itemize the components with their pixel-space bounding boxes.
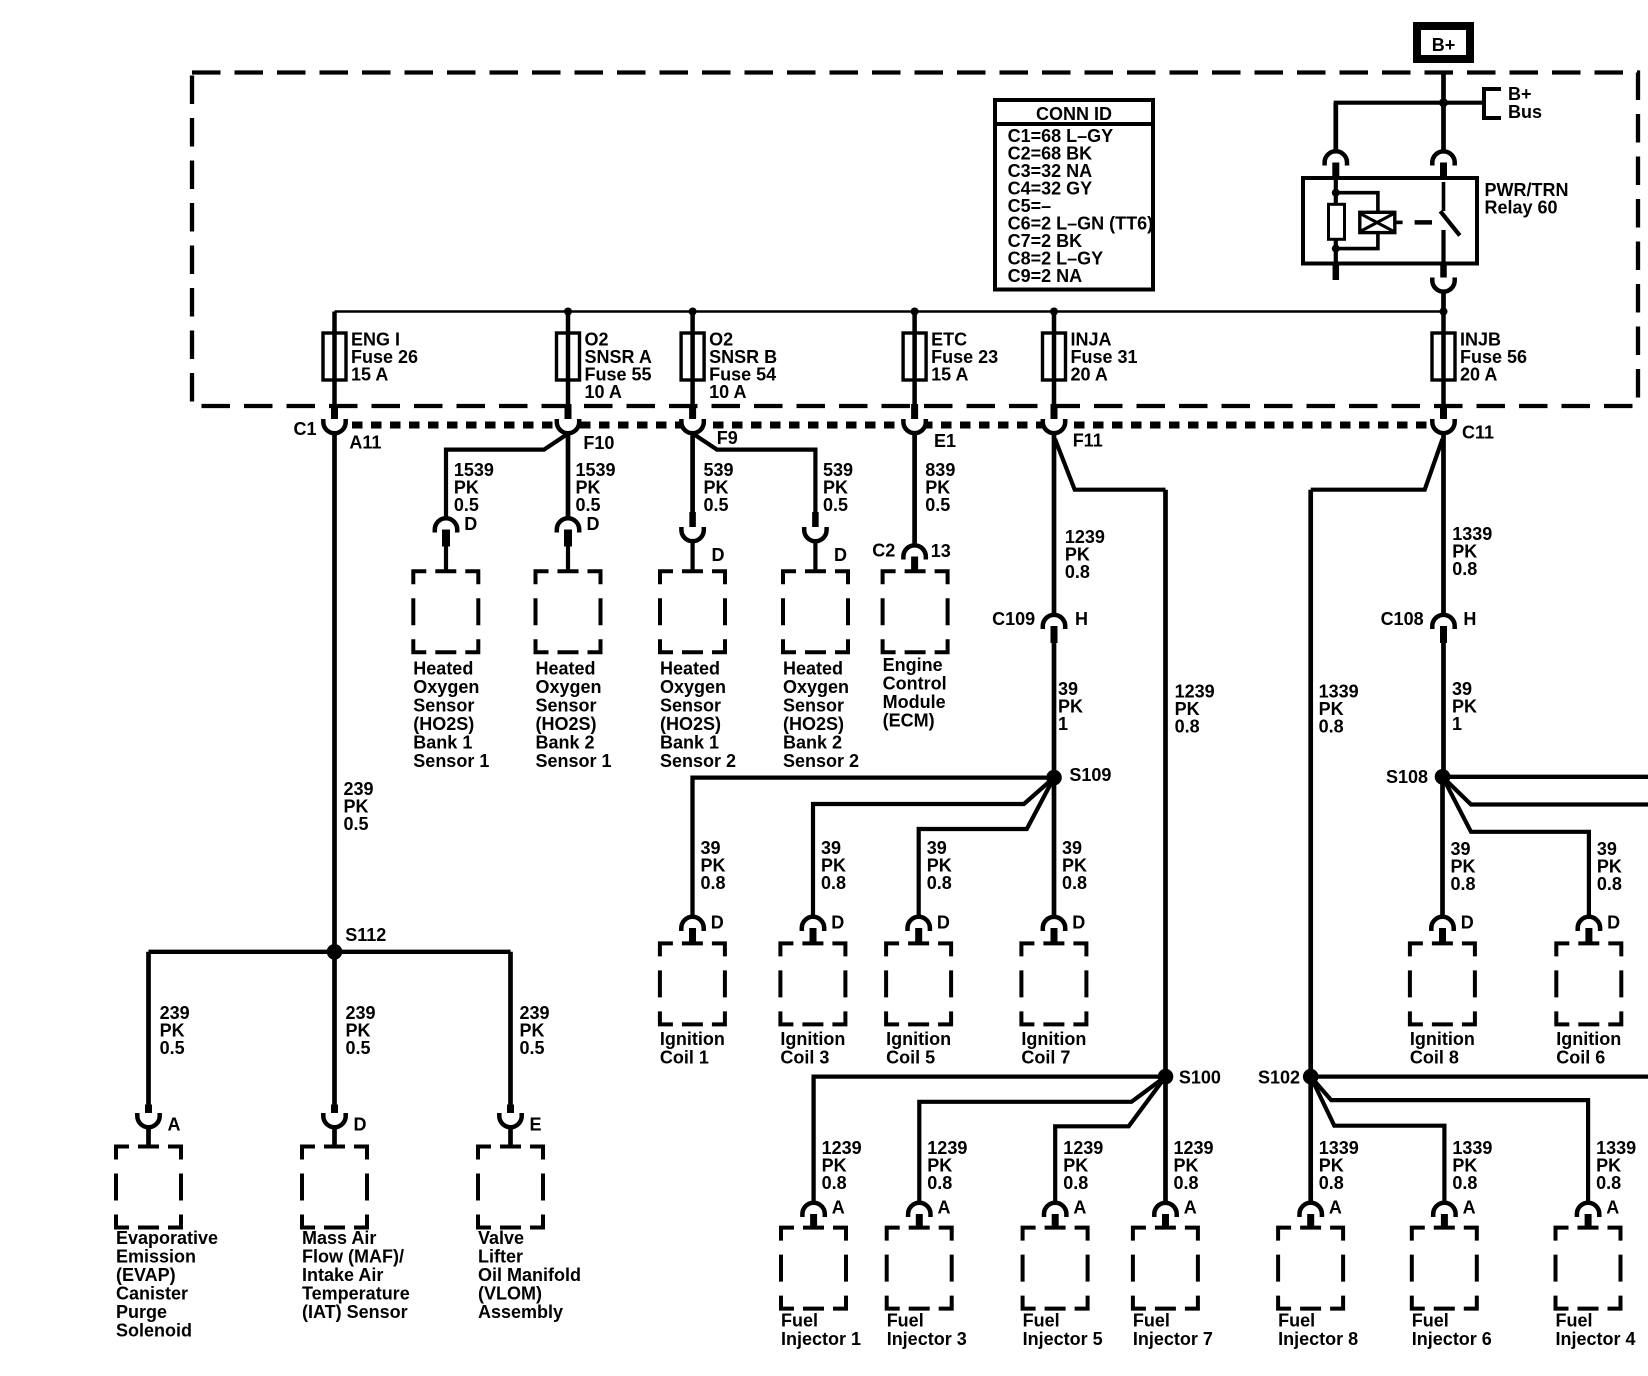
svg-text:Ignition: Ignition [1410, 1029, 1475, 1049]
svg-text:C108: C108 [1381, 609, 1424, 629]
wire label 1539 PK 0.5 (left) [454, 460, 494, 515]
wire S112 branch down x=510.5 [508, 952, 513, 1105]
wire S100 to fuel injector 1 [814, 1077, 1166, 1202]
svg-text:Fuel: Fuel [1412, 1311, 1449, 1331]
svg-text:0.5: 0.5 [454, 495, 479, 515]
svg-text:Oxygen: Oxygen [660, 677, 726, 697]
svg-text:(VLOM): (VLOM) [478, 1284, 542, 1304]
svg-text:Injector 3: Injector 3 [887, 1329, 967, 1349]
svg-text:H: H [1463, 609, 1476, 629]
connector E [499, 1105, 541, 1135]
wire label 1239 PK 0.8 (Injector 7) [1174, 1138, 1214, 1193]
svg-text:Ignition: Ignition [780, 1029, 845, 1049]
svg-text:D: D [831, 913, 844, 933]
svg-text:C2: C2 [872, 541, 895, 561]
svg-text:S108: S108 [1386, 767, 1428, 787]
svg-text:Oxygen: Oxygen [536, 677, 602, 697]
connector F11 [1043, 419, 1103, 451]
node S108 [1386, 767, 1450, 787]
svg-text:B+: B+ [1432, 35, 1456, 55]
svg-text:D: D [1607, 913, 1620, 933]
svg-text:Ignition: Ignition [1556, 1029, 1621, 1049]
connector D (Coil 7) [1043, 913, 1085, 944]
fuel injector box Injector 3 [887, 1228, 967, 1349]
svg-text:0.5: 0.5 [704, 495, 729, 515]
ignition coil box Coil 7 [1021, 943, 1086, 1067]
svg-text:Solenoid: Solenoid [116, 1321, 192, 1341]
wire label 239 PK 0.5 [344, 779, 374, 834]
svg-text:Module: Module [883, 692, 946, 712]
node relay coil bottom [1332, 245, 1340, 253]
connector A (Injector 7) [1154, 1198, 1196, 1228]
svg-text:Injector 1: Injector 1 [781, 1329, 861, 1349]
wire E1 down to ECM [912, 433, 917, 544]
wire F9 split diagonal to right sensor [695, 435, 815, 512]
connector F9 [681, 419, 737, 448]
HO2S Bank2 Sensor2 box [783, 571, 859, 771]
harness dashed box [192, 73, 1638, 407]
svg-text:Fuel: Fuel [1556, 1311, 1593, 1331]
HO2S Bank1 Sensor2 box [660, 571, 736, 771]
svg-text:(HO2S): (HO2S) [783, 714, 844, 734]
wire connector to component [332, 1127, 337, 1147]
svg-text:Coil 8: Coil 8 [1410, 1048, 1459, 1068]
wire relay output to bus [1441, 291, 1446, 312]
svg-text:0.8: 0.8 [1065, 562, 1090, 582]
ECM box [883, 571, 948, 730]
svg-text:F11: F11 [1073, 431, 1103, 451]
svg-text:0.8: 0.8 [1063, 1173, 1088, 1193]
svg-text:Sensor: Sensor [783, 696, 844, 716]
fuel injector box Injector 4 [1556, 1228, 1636, 1349]
svg-text:S112: S112 [345, 925, 386, 945]
wire label 539 PK 0.5 [704, 460, 734, 515]
svg-text:E1: E1 [934, 431, 956, 451]
ignition coil box Coil 8 [1410, 943, 1475, 1067]
svg-text:0.8: 0.8 [1597, 874, 1622, 894]
svg-text:(HO2S): (HO2S) [660, 714, 721, 734]
connector A (Injector 3) [908, 1198, 950, 1228]
svg-text:F10: F10 [583, 433, 614, 453]
svg-text:A: A [938, 1198, 951, 1218]
connector C11 [1432, 419, 1494, 443]
svg-text:D: D [937, 913, 950, 933]
wire label 539 PK 0.5 (right) [823, 460, 853, 515]
svg-text:10 A: 10 A [709, 382, 746, 402]
fuel injector box Injector 8 [1278, 1228, 1358, 1349]
HO2S Bank1 Sensor1 box [413, 571, 489, 771]
svg-text:Canister: Canister [116, 1284, 188, 1304]
wire S100 to fuel injector 5 [1055, 1077, 1165, 1202]
svg-text:0.8: 0.8 [1174, 1173, 1199, 1193]
svg-text:Lifter: Lifter [478, 1247, 523, 1267]
svg-text:15 A: 15 A [931, 365, 968, 385]
node S112 [327, 925, 387, 960]
svg-text:0.5: 0.5 [576, 495, 601, 515]
relay input connector (switch side) [1432, 151, 1454, 178]
wire label 1239 PK 0.8 (Injector 5) [1063, 1138, 1103, 1193]
wire F11 down to C109 [1052, 433, 1057, 614]
svg-text:Injector 7: Injector 7 [1133, 1329, 1213, 1349]
wire S109 to ignition coil 7 [1052, 778, 1057, 916]
wire label 1339 PK 0.8 [1452, 524, 1492, 579]
relay coil ground stub [1333, 264, 1340, 281]
relay coil branch wire [1334, 178, 1338, 204]
svg-text:0.5: 0.5 [925, 495, 950, 515]
svg-text:A: A [1329, 1198, 1342, 1218]
wire S102 to fuel injector 6 [1311, 1077, 1445, 1202]
svg-text:Oil Manifold: Oil Manifold [478, 1265, 581, 1285]
svg-text:A: A [1073, 1198, 1086, 1218]
fuse O2 SNSR A [557, 308, 652, 423]
svg-text:D: D [354, 1115, 367, 1135]
wire S102 to fuel injector 8 [1308, 1077, 1313, 1202]
svg-text:Oxygen: Oxygen [413, 677, 479, 697]
svg-text:(ECM): (ECM) [883, 711, 935, 731]
HO2S Bank2 Sensor1 box [536, 571, 612, 771]
connector A (Injector 5) [1044, 1198, 1086, 1228]
wire label 1239 PK 0.8 (Injector 3) [927, 1138, 967, 1193]
svg-text:Coil 6: Coil 6 [1556, 1048, 1605, 1068]
connector D (HO2S B1S2) [681, 512, 724, 565]
fuel injector box Injector 7 [1133, 1228, 1213, 1349]
svg-text:1: 1 [1452, 714, 1462, 734]
svg-text:1: 1 [1058, 714, 1068, 734]
connector D (HO2S B2S2) [804, 512, 847, 565]
connector A (Injector 1) [802, 1198, 844, 1228]
wire to relay coil-side input [1333, 103, 1338, 151]
relay input connector (coil side) [1325, 151, 1347, 178]
wire S112 branch horizontal [149, 950, 511, 954]
node relay coil top [1332, 189, 1340, 197]
wire S102 to right edge [1311, 1074, 1648, 1078]
svg-text:Heated: Heated [783, 659, 843, 679]
connector E1 [903, 419, 956, 451]
fuse ENG I [323, 312, 418, 423]
connector D (Coil 8) [1431, 913, 1473, 944]
svg-text:S100: S100 [1179, 1068, 1221, 1088]
svg-text:A: A [832, 1198, 845, 1218]
wire S100 to fuel injector 7 [1163, 1077, 1168, 1202]
wire C11 split diagonal to injector feed [1311, 439, 1443, 490]
svg-text:20 A: 20 A [1071, 365, 1108, 385]
wire label 1339 PK 0.8 (Injector 6) [1452, 1138, 1492, 1193]
fuse ETC [903, 308, 998, 423]
fuse O2 SNSR B [681, 308, 777, 423]
relay coil winding symbol [1360, 212, 1395, 232]
wire label 239 PK 0.5 [346, 1003, 376, 1058]
wire B+ down to junction [1441, 73, 1446, 104]
VLOM assembly box [478, 1147, 581, 1323]
node S100 [1158, 1068, 1221, 1088]
svg-text:0.5: 0.5 [344, 814, 369, 834]
svg-text:Sensor: Sensor [413, 696, 474, 716]
svg-text:H: H [1075, 609, 1088, 629]
svg-text:D: D [464, 514, 477, 534]
relay switch output wire [1441, 230, 1445, 264]
svg-text:Bank 2: Bank 2 [536, 733, 595, 753]
fuse INJA [1043, 308, 1138, 423]
svg-text:Sensor: Sensor [660, 696, 721, 716]
svg-text:B+: B+ [1508, 84, 1532, 104]
connector A (Injector 8) [1300, 1198, 1342, 1228]
svg-text:CONN ID: CONN ID [1036, 104, 1112, 124]
svg-text:A: A [1463, 1198, 1476, 1218]
svg-text:Ignition: Ignition [1021, 1029, 1086, 1049]
svg-text:0.5: 0.5 [160, 1038, 185, 1058]
connector D (Coil 3) [802, 913, 844, 944]
wire S108 to ignition coil 6 [1443, 777, 1589, 916]
svg-text:Injector 8: Injector 8 [1278, 1329, 1358, 1349]
svg-text:0.5: 0.5 [346, 1038, 371, 1058]
svg-text:(IAT) Sensor: (IAT) Sensor [302, 1302, 408, 1322]
MAF/IAT sensor box [302, 1147, 410, 1323]
connector C108 pin H [1381, 609, 1477, 643]
relay armature link (dashed) [1395, 221, 1403, 225]
svg-text:D: D [711, 913, 724, 933]
svg-text:Evaporative: Evaporative [116, 1228, 218, 1248]
fuel injector box Injector 5 [1023, 1228, 1103, 1349]
wire label 1239 PK 0.8 [1175, 682, 1215, 737]
wire to HO2S B1S1 box [444, 547, 448, 572]
svg-text:10 A: 10 A [585, 382, 622, 402]
svg-text:(HO2S): (HO2S) [413, 714, 474, 734]
wire connector to component [508, 1127, 513, 1147]
svg-text:Injector 5: Injector 5 [1023, 1329, 1103, 1349]
svg-text:Sensor 1: Sensor 1 [536, 751, 612, 771]
svg-text:Ignition: Ignition [886, 1029, 951, 1049]
bus wire (inside harness box) [335, 310, 1444, 313]
svg-text:D: D [587, 514, 600, 534]
svg-text:D: D [1072, 913, 1085, 933]
svg-text:S109: S109 [1069, 765, 1111, 785]
svg-text:Sensor 2: Sensor 2 [660, 751, 736, 771]
svg-text:Fuel: Fuel [1278, 1311, 1315, 1331]
ignition coil box Coil 3 [780, 943, 845, 1067]
wire C108 to S108 [1441, 643, 1446, 777]
wire label 39 PK 1 [1452, 679, 1477, 734]
wire label 39 PK 0.8 (Coil 3) [821, 838, 846, 893]
connector A (Injector 4) [1577, 1198, 1619, 1228]
svg-text:20 A: 20 A [1460, 365, 1497, 385]
node B+ junction [1439, 98, 1448, 107]
svg-text:D: D [834, 545, 847, 565]
wire label 239 PK 0.5 [160, 1003, 190, 1058]
wire injector feed (right bank) to S102 [1308, 490, 1313, 1077]
B+ Bus terminal bracket [1484, 84, 1542, 122]
svg-text:Emission: Emission [116, 1247, 196, 1267]
svg-text:Sensor 1: Sensor 1 [413, 751, 489, 771]
connector C109 pin H [992, 609, 1088, 643]
svg-text:Heated: Heated [536, 659, 596, 679]
svg-text:0.8: 0.8 [1319, 717, 1344, 737]
wire label 1239 PK 0.8 [1065, 527, 1105, 582]
wire F11 split diagonal to injector feed [1055, 439, 1166, 490]
wire S108 to ignition coil 8 [1440, 777, 1445, 916]
CONN ID table [995, 100, 1153, 290]
B+ battery feed box [1417, 26, 1470, 59]
svg-text:Bus: Bus [1508, 102, 1542, 122]
wire S109 to ignition coil 1 [693, 778, 1055, 916]
wire connector to component [146, 1127, 151, 1147]
connector D (Coil 5) [908, 913, 950, 944]
wire label 39 PK 1 [1058, 679, 1083, 734]
svg-text:Sensor: Sensor [536, 696, 597, 716]
svg-text:Assembly: Assembly [478, 1302, 563, 1322]
relay output connector [1432, 278, 1454, 292]
connector A (Injector 6) [1433, 1198, 1475, 1228]
connector D (HO2S B1S1) [435, 514, 478, 547]
svg-text:0.8: 0.8 [1596, 1173, 1621, 1193]
svg-text:0.8: 0.8 [821, 873, 846, 893]
svg-text:C11: C11 [1462, 423, 1494, 443]
svg-text:Injector 6: Injector 6 [1412, 1329, 1492, 1349]
svg-text:Heated: Heated [660, 659, 720, 679]
svg-text:Control: Control [883, 674, 947, 694]
connector row dotted line [352, 422, 1433, 429]
fuel injector box Injector 6 [1412, 1228, 1492, 1349]
wire label 39 PK 0.8 (Coil 8) [1451, 839, 1476, 894]
svg-text:0.8: 0.8 [822, 1173, 847, 1193]
ignition coil box Coil 6 [1556, 943, 1621, 1067]
svg-text:Ignition: Ignition [660, 1029, 725, 1049]
connector D [323, 1105, 366, 1135]
EVAP canister purge solenoid box [116, 1147, 218, 1341]
svg-text:(EVAP): (EVAP) [116, 1265, 176, 1285]
svg-text:A: A [1184, 1198, 1197, 1218]
svg-text:0.8: 0.8 [927, 1173, 952, 1193]
fuse INJB [1432, 308, 1527, 423]
wire S109 to ignition coil 3 [813, 778, 1054, 916]
connector C1 [293, 419, 381, 453]
svg-text:(HO2S): (HO2S) [536, 714, 597, 734]
svg-text:Coil 5: Coil 5 [886, 1048, 935, 1068]
svg-text:Heated: Heated [413, 659, 473, 679]
connector C2 pin 13 [872, 541, 950, 571]
wire C1 to S112 [332, 433, 337, 952]
svg-text:Purge: Purge [116, 1302, 167, 1322]
wire label 1339 PK 0.8 [1319, 682, 1359, 737]
wire S102 to fuel injector 4 [1311, 1077, 1588, 1202]
fuel injector box Injector 1 [781, 1228, 861, 1349]
wire C109 to S109 [1052, 643, 1057, 778]
wire label 39 PK 0.8 (Coil 1) [701, 838, 726, 893]
node S109 [1046, 765, 1111, 785]
svg-text:Sensor 2: Sensor 2 [783, 751, 859, 771]
svg-text:C1: C1 [293, 419, 316, 439]
svg-text:Valve: Valve [478, 1228, 524, 1248]
relay output stub [1440, 264, 1447, 280]
svg-text:Bank 1: Bank 1 [413, 733, 472, 753]
wire F10 down to second sensor [566, 433, 571, 518]
svg-text:D: D [1461, 913, 1474, 933]
wire S112 branch down x=334.5 [332, 952, 337, 1105]
wire label 1339 PK 0.8 (Injector 4) [1596, 1138, 1636, 1193]
svg-text:Engine: Engine [883, 655, 943, 675]
svg-text:0.8: 0.8 [1452, 1173, 1477, 1193]
svg-text:Intake Air: Intake Air [302, 1265, 383, 1285]
svg-text:A: A [1606, 1198, 1619, 1218]
svg-text:Coil 3: Coil 3 [780, 1048, 829, 1068]
wire S108 to right edge (coil 4) [1443, 777, 1648, 805]
svg-text:Bank 2: Bank 2 [783, 733, 842, 753]
svg-text:Fuel: Fuel [1133, 1311, 1170, 1331]
svg-text:Flow (MAF)/: Flow (MAF)/ [302, 1247, 404, 1267]
svg-text:Injector 4: Injector 4 [1556, 1329, 1636, 1349]
svg-text:Relay 60: Relay 60 [1485, 198, 1558, 218]
svg-text:15 A: 15 A [351, 365, 388, 385]
wire to HO2S B1S2 box [690, 541, 694, 571]
svg-text:Temperature: Temperature [302, 1284, 410, 1304]
connector D (Coil 6) [1578, 913, 1620, 944]
svg-text:13: 13 [931, 541, 951, 561]
svg-text:0.8: 0.8 [701, 873, 726, 893]
wire F10 split diagonal to left sensor [446, 435, 566, 518]
svg-text:0.8: 0.8 [1452, 559, 1477, 579]
svg-text:Oxygen: Oxygen [783, 677, 849, 697]
svg-text:C9=2 NA: C9=2 NA [1008, 266, 1083, 286]
svg-text:C109: C109 [992, 609, 1035, 629]
relay coil winding branch [1336, 193, 1378, 213]
wire label 1539 PK 0.5 (right) [576, 460, 616, 515]
connector D (Coil 1) [681, 913, 723, 944]
svg-text:0.5: 0.5 [520, 1038, 545, 1058]
svg-text:0.8: 0.8 [927, 873, 952, 893]
svg-text:Bank 1: Bank 1 [660, 733, 719, 753]
node S102 [1258, 1068, 1319, 1088]
wire label 1339 PK 0.8 (Injector 8) [1319, 1138, 1359, 1193]
ignition coil box Coil 1 [660, 943, 725, 1067]
wire junction to relay (horizontal) [1334, 101, 1482, 105]
wire S100 to fuel injector 3 [919, 1077, 1165, 1202]
svg-text:Fuel: Fuel [1023, 1311, 1060, 1331]
wire S109 to ignition coil 5 [919, 778, 1054, 916]
wire to HO2S B2S2 box [813, 541, 817, 571]
wire injector feed to S100 [1163, 490, 1168, 1077]
connector D (HO2S B2S1) [557, 514, 600, 547]
wire junction down to relay switch-side input [1441, 103, 1446, 151]
svg-text:A11: A11 [349, 433, 381, 453]
wire label 239 PK 0.5 [520, 1003, 550, 1058]
wire label 39 PK 0.8 (Coil 5) [927, 838, 952, 893]
wire to HO2S B2S1 box [566, 547, 570, 572]
svg-text:Coil 7: Coil 7 [1021, 1048, 1070, 1068]
wire label 39 PK 0.8 (Coil 7) [1062, 838, 1087, 893]
svg-text:0.8: 0.8 [1451, 874, 1476, 894]
svg-text:A: A [168, 1115, 181, 1135]
wire label 39 PK 0.8 (Coil 6) [1597, 839, 1622, 894]
svg-text:E: E [530, 1115, 542, 1135]
svg-text:Fuel: Fuel [781, 1311, 818, 1331]
wire S112 branch down x=148.5 [146, 952, 151, 1105]
svg-text:Coil 1: Coil 1 [660, 1048, 709, 1068]
wire F9 down to sensor [690, 433, 695, 512]
svg-text:0.5: 0.5 [823, 495, 848, 515]
wire label 1239 PK 0.8 (Injector 1) [822, 1138, 862, 1193]
svg-text:0.8: 0.8 [1319, 1173, 1344, 1193]
wire label 839 PK 0.5 [925, 460, 955, 515]
ignition coil box Coil 5 [886, 943, 951, 1067]
relay coil resistor [1329, 204, 1345, 239]
svg-text:0.8: 0.8 [1175, 717, 1200, 737]
wire C11 down to C108 [1441, 433, 1446, 614]
svg-text:D: D [712, 545, 725, 565]
svg-text:Fuel: Fuel [887, 1311, 924, 1331]
svg-text:S102: S102 [1258, 1068, 1300, 1088]
relay switch arm [1442, 182, 1446, 211]
relay PWR/TRN Relay 60 [1303, 178, 1569, 264]
wire S108 to right edge (coil 2) [1443, 775, 1648, 779]
